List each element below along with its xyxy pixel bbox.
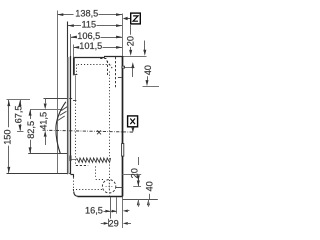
svg-text:40: 40 [143, 65, 153, 75]
svg-text:101,5: 101,5 [79, 41, 102, 51]
svg-text:20: 20 [130, 168, 140, 178]
svg-text:82,5: 82,5 [26, 121, 36, 139]
svg-text:40: 40 [144, 181, 154, 191]
svg-text:29: 29 [108, 219, 118, 229]
svg-text:138,5: 138,5 [75, 8, 98, 18]
svg-text:106,5: 106,5 [77, 31, 100, 41]
svg-text:115: 115 [81, 19, 96, 29]
svg-text:41,5: 41,5 [39, 112, 49, 130]
svg-text:150: 150 [2, 129, 12, 144]
svg-text:20: 20 [125, 36, 135, 46]
svg-text:16,5: 16,5 [85, 206, 103, 216]
svg-text:67,5: 67,5 [14, 106, 24, 124]
